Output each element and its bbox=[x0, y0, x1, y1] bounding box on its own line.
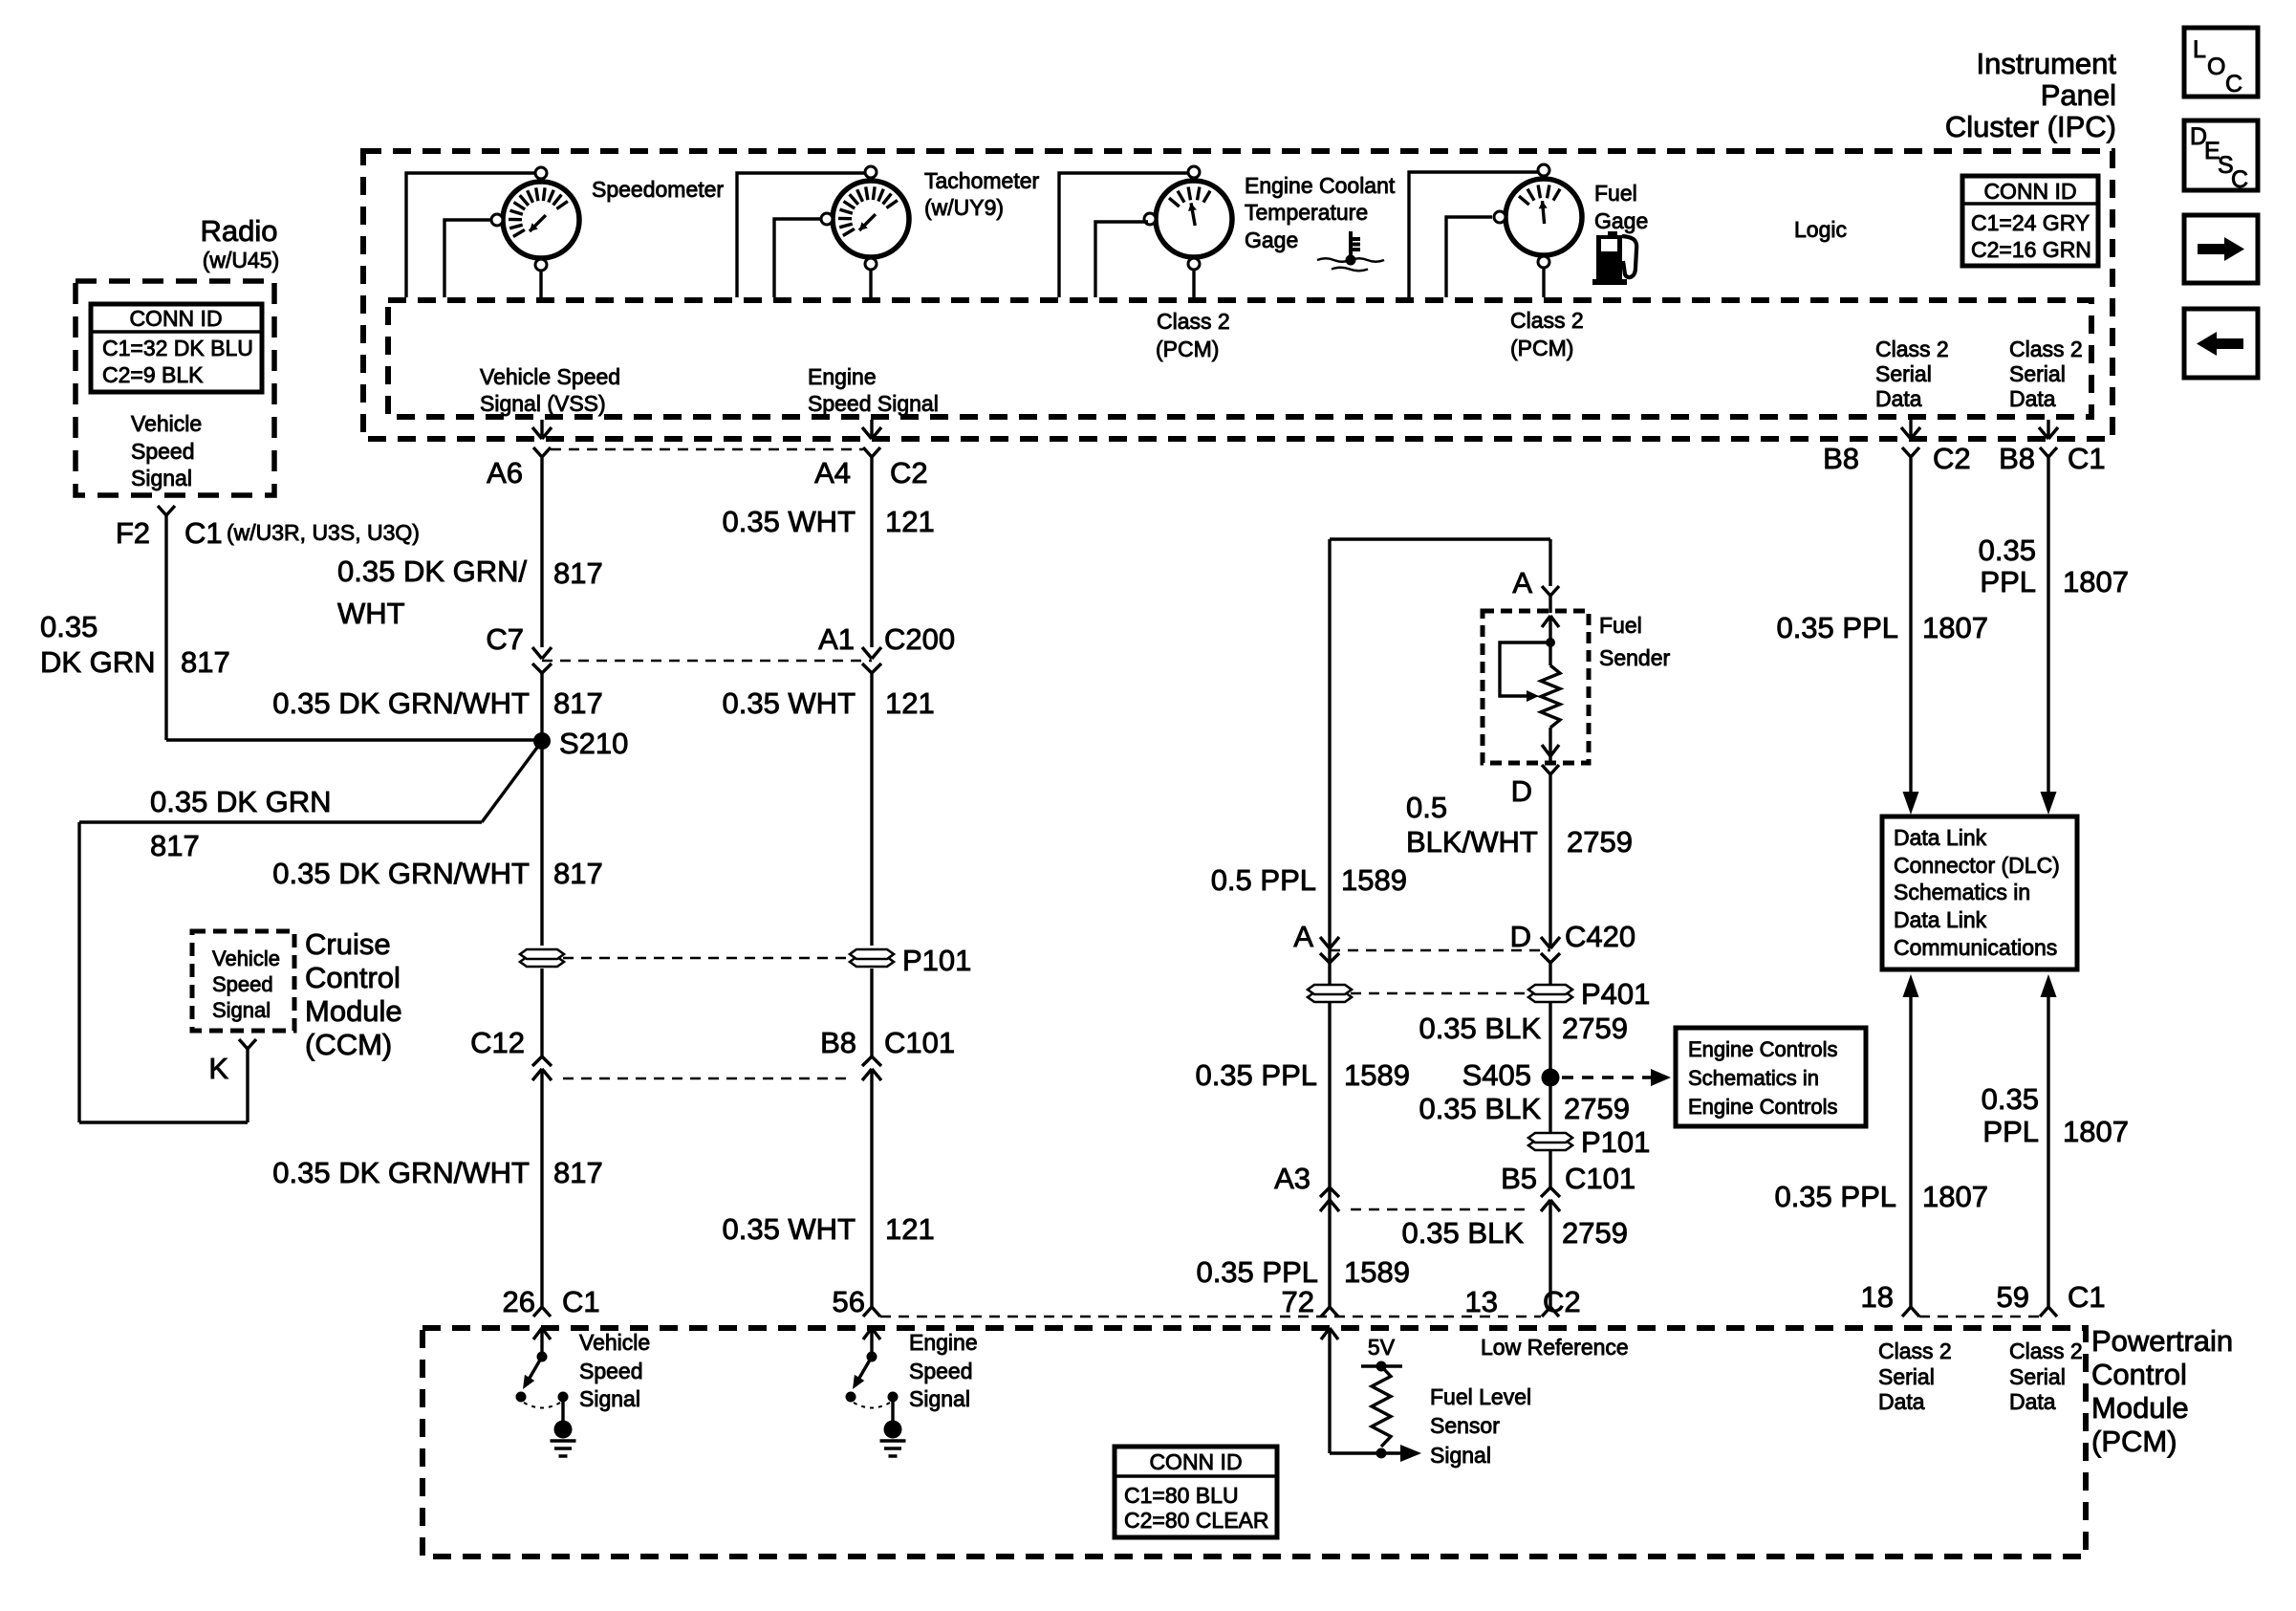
svg-text:0.35 WHT: 0.35 WHT bbox=[722, 1212, 856, 1246]
svg-text:1589: 1589 bbox=[1341, 863, 1407, 897]
svg-text:Signal: Signal bbox=[909, 1386, 970, 1411]
svg-text:C2=80 CLEAR: C2=80 CLEAR bbox=[1124, 1508, 1269, 1533]
svg-text:2759: 2759 bbox=[1564, 1092, 1630, 1125]
svg-text:C2=16 GRN: C2=16 GRN bbox=[1971, 237, 2091, 262]
svg-text:Engine: Engine bbox=[909, 1330, 978, 1355]
svg-text:Class 2: Class 2 bbox=[2009, 337, 2083, 361]
svg-text:0.35 BLK: 0.35 BLK bbox=[1401, 1216, 1524, 1250]
svg-text:(PCM): (PCM) bbox=[1510, 336, 1573, 360]
svg-text:Data: Data bbox=[1875, 386, 1922, 411]
svg-text:Connector (DLC): Connector (DLC) bbox=[1894, 853, 2060, 878]
svg-text:B8: B8 bbox=[1999, 442, 2035, 475]
svg-text:C2=9 BLK: C2=9 BLK bbox=[102, 362, 204, 387]
svg-text:Class 2: Class 2 bbox=[1157, 309, 1230, 334]
svg-text:C2: C2 bbox=[1543, 1285, 1581, 1318]
svg-text:A1: A1 bbox=[818, 622, 855, 656]
svg-text:Class 2: Class 2 bbox=[1510, 308, 1584, 333]
svg-text:0.35: 0.35 bbox=[1982, 1082, 2039, 1116]
svg-text:Engine Coolant: Engine Coolant bbox=[1245, 173, 1396, 198]
svg-text:F2: F2 bbox=[116, 516, 150, 550]
svg-text:Data Link: Data Link bbox=[1894, 825, 1987, 850]
svg-text:Gage: Gage bbox=[1245, 228, 1298, 252]
svg-text:Engine Controls: Engine Controls bbox=[1688, 1037, 1838, 1061]
svg-text:Class 2: Class 2 bbox=[1875, 337, 1949, 361]
svg-text:(w/U3R, U3S, U3Q): (w/U3R, U3S, U3Q) bbox=[227, 520, 420, 545]
svg-text:Fuel: Fuel bbox=[1599, 613, 1642, 638]
svg-text:Signal: Signal bbox=[579, 1386, 640, 1411]
svg-text:0.35 PPL: 0.35 PPL bbox=[1776, 611, 1898, 644]
svg-text:O: O bbox=[2207, 54, 2225, 80]
svg-text:C12: C12 bbox=[470, 1026, 525, 1059]
svg-text:0.35: 0.35 bbox=[40, 610, 97, 643]
svg-text:C2: C2 bbox=[1933, 442, 1971, 475]
svg-text:0.35 WHT: 0.35 WHT bbox=[722, 505, 856, 538]
svg-text:121: 121 bbox=[885, 686, 935, 720]
svg-text:121: 121 bbox=[885, 505, 935, 538]
svg-text:Schematics in: Schematics in bbox=[1894, 880, 2030, 904]
svg-text:0.35 DK GRN/WHT: 0.35 DK GRN/WHT bbox=[272, 686, 530, 720]
svg-text:0.35 PPL: 0.35 PPL bbox=[1774, 1180, 1896, 1213]
svg-text:Speed: Speed bbox=[212, 972, 273, 996]
svg-text:A4: A4 bbox=[814, 456, 851, 490]
svg-text:Vehicle: Vehicle bbox=[579, 1330, 650, 1355]
svg-text:C1=24 GRY: C1=24 GRY bbox=[1971, 210, 2090, 235]
svg-text:Module: Module bbox=[2091, 1391, 2189, 1425]
svg-text:C101: C101 bbox=[884, 1026, 955, 1059]
svg-text:1589: 1589 bbox=[1344, 1058, 1410, 1092]
svg-text:Data: Data bbox=[2009, 386, 2056, 411]
svg-text:0.5: 0.5 bbox=[1406, 791, 1447, 824]
svg-text:817: 817 bbox=[553, 1156, 603, 1189]
svg-text:D: D bbox=[1511, 774, 1532, 808]
svg-text:817: 817 bbox=[553, 857, 603, 890]
svg-text:2759: 2759 bbox=[1562, 1012, 1628, 1045]
svg-text:Serial: Serial bbox=[2009, 361, 2066, 386]
svg-text:Sensor: Sensor bbox=[1430, 1413, 1500, 1438]
svg-text:Signal: Signal bbox=[131, 466, 192, 490]
svg-text:A: A bbox=[1512, 566, 1532, 599]
svg-text:817: 817 bbox=[553, 556, 603, 590]
svg-text:C1=80 BLU: C1=80 BLU bbox=[1124, 1483, 1239, 1508]
svg-text:Class 2: Class 2 bbox=[1878, 1339, 1952, 1363]
svg-text:Speedometer: Speedometer bbox=[592, 177, 724, 202]
svg-text:C1: C1 bbox=[562, 1285, 600, 1318]
svg-text:Cluster (IPC): Cluster (IPC) bbox=[1945, 110, 2116, 143]
svg-text:0.35 DK GRN/WHT: 0.35 DK GRN/WHT bbox=[272, 857, 530, 890]
svg-text:817: 817 bbox=[553, 686, 603, 720]
svg-text:CONN ID: CONN ID bbox=[1149, 1449, 1242, 1474]
svg-text:S210: S210 bbox=[559, 727, 628, 760]
svg-text:817: 817 bbox=[181, 645, 230, 679]
svg-text:Tachometer: Tachometer bbox=[924, 168, 1040, 193]
svg-text:0.35 DK GRN: 0.35 DK GRN bbox=[150, 785, 332, 818]
svg-text:A6: A6 bbox=[487, 456, 523, 490]
svg-text:0.35 BLK: 0.35 BLK bbox=[1419, 1012, 1541, 1045]
svg-text:C: C bbox=[2225, 71, 2242, 98]
svg-text:0.35 PPL: 0.35 PPL bbox=[1196, 1255, 1318, 1289]
svg-text:(CCM): (CCM) bbox=[305, 1028, 392, 1061]
svg-text:B8: B8 bbox=[1823, 442, 1859, 475]
svg-text:C1: C1 bbox=[184, 516, 223, 550]
svg-text:1807: 1807 bbox=[2063, 565, 2129, 599]
svg-text:BLK/WHT: BLK/WHT bbox=[1406, 825, 1538, 859]
svg-text:Schematics in: Schematics in bbox=[1688, 1066, 1819, 1090]
svg-text:Serial: Serial bbox=[2009, 1364, 2066, 1389]
svg-text:Speed Signal: Speed Signal bbox=[808, 391, 939, 416]
svg-text:13: 13 bbox=[1465, 1285, 1498, 1318]
svg-text:Class 2: Class 2 bbox=[2009, 1339, 2083, 1363]
svg-text:5V: 5V bbox=[1368, 1335, 1396, 1360]
svg-text:P101: P101 bbox=[902, 944, 971, 977]
svg-text:C7: C7 bbox=[486, 622, 524, 656]
svg-text:Temperature: Temperature bbox=[1245, 200, 1368, 225]
svg-text:Data: Data bbox=[2009, 1389, 2056, 1414]
svg-text:Module: Module bbox=[305, 994, 402, 1028]
svg-text:CONN ID: CONN ID bbox=[1983, 179, 2076, 204]
svg-text:72: 72 bbox=[1282, 1285, 1314, 1318]
svg-text:1807: 1807 bbox=[1922, 1180, 1988, 1213]
svg-text:Vehicle: Vehicle bbox=[212, 947, 280, 970]
svg-text:D: D bbox=[1510, 920, 1531, 953]
svg-text:C2: C2 bbox=[890, 456, 928, 490]
svg-text:Data Link: Data Link bbox=[1894, 907, 1987, 932]
svg-text:Engine: Engine bbox=[808, 364, 877, 389]
svg-text:A3: A3 bbox=[1274, 1162, 1310, 1195]
svg-text:Control: Control bbox=[305, 961, 401, 994]
svg-text:Sender: Sender bbox=[1599, 645, 1671, 670]
svg-text:B8: B8 bbox=[820, 1026, 856, 1059]
svg-text:26: 26 bbox=[503, 1285, 535, 1318]
svg-text:Communications: Communications bbox=[1894, 935, 2057, 960]
svg-text:C1: C1 bbox=[2068, 1280, 2106, 1314]
svg-text:0.35 BLK: 0.35 BLK bbox=[1419, 1092, 1541, 1125]
svg-text:PPL: PPL bbox=[1980, 565, 2036, 599]
svg-text:Speed: Speed bbox=[579, 1359, 643, 1383]
svg-text:S405: S405 bbox=[1462, 1058, 1531, 1092]
svg-text:Control: Control bbox=[2091, 1358, 2187, 1391]
svg-text:Speed: Speed bbox=[131, 439, 195, 464]
svg-text:Powertrain: Powertrain bbox=[2091, 1324, 2233, 1358]
svg-text:0.5 PPL: 0.5 PPL bbox=[1211, 863, 1316, 897]
svg-text:Engine Controls: Engine Controls bbox=[1688, 1095, 1838, 1119]
svg-text:56: 56 bbox=[833, 1285, 865, 1318]
svg-text:(w/U45): (w/U45) bbox=[203, 248, 280, 272]
svg-text:0.35 WHT: 0.35 WHT bbox=[722, 686, 856, 720]
svg-text:L: L bbox=[2193, 36, 2206, 63]
svg-text:CONN ID: CONN ID bbox=[129, 306, 222, 331]
svg-text:0.35 DK GRN/WHT: 0.35 DK GRN/WHT bbox=[272, 1156, 530, 1189]
svg-text:Signal: Signal bbox=[1430, 1443, 1491, 1468]
svg-text:Speed: Speed bbox=[909, 1359, 973, 1383]
svg-text:Signal (VSS): Signal (VSS) bbox=[480, 391, 606, 416]
svg-text:PPL: PPL bbox=[1982, 1115, 2039, 1148]
svg-text:C420: C420 bbox=[1565, 920, 1635, 953]
svg-text:K: K bbox=[208, 1052, 228, 1085]
svg-text:2759: 2759 bbox=[1562, 1216, 1628, 1250]
svg-text:P101: P101 bbox=[1581, 1125, 1650, 1159]
svg-text:0.35 DK GRN/: 0.35 DK GRN/ bbox=[337, 555, 528, 588]
svg-text:Fuel: Fuel bbox=[1594, 181, 1637, 206]
svg-text:Serial: Serial bbox=[1875, 361, 1932, 386]
svg-text:A: A bbox=[1293, 920, 1313, 953]
svg-text:0.35: 0.35 bbox=[1979, 533, 2036, 567]
svg-text:DK GRN: DK GRN bbox=[40, 645, 156, 679]
svg-text:Logic: Logic bbox=[1794, 217, 1847, 242]
svg-text:Data: Data bbox=[1878, 1389, 1925, 1414]
svg-text:Fuel Level: Fuel Level bbox=[1430, 1384, 1531, 1409]
svg-text:(PCM): (PCM) bbox=[2091, 1425, 2177, 1458]
svg-text:C1: C1 bbox=[2068, 442, 2106, 475]
svg-text:B5: B5 bbox=[1501, 1162, 1537, 1195]
svg-text:Cruise: Cruise bbox=[305, 927, 391, 961]
svg-text:(w/UY9): (w/UY9) bbox=[924, 195, 1004, 220]
svg-text:WHT: WHT bbox=[337, 597, 405, 630]
svg-text:Vehicle Speed: Vehicle Speed bbox=[480, 364, 620, 389]
svg-text:1589: 1589 bbox=[1344, 1255, 1410, 1289]
svg-text:Low Reference: Low Reference bbox=[1481, 1335, 1629, 1360]
svg-text:Vehicle: Vehicle bbox=[131, 411, 202, 436]
svg-text:C1=32 DK BLU: C1=32 DK BLU bbox=[102, 336, 253, 360]
svg-text:1807: 1807 bbox=[2063, 1115, 2129, 1148]
svg-text:Serial: Serial bbox=[1878, 1364, 1935, 1389]
svg-text:2759: 2759 bbox=[1567, 825, 1633, 859]
svg-text:(PCM): (PCM) bbox=[1156, 337, 1219, 361]
svg-text:18: 18 bbox=[1861, 1280, 1894, 1314]
svg-text:C: C bbox=[2231, 166, 2248, 193]
svg-text:P401: P401 bbox=[1581, 977, 1650, 1011]
svg-text:121: 121 bbox=[885, 1212, 935, 1246]
svg-text:1807: 1807 bbox=[1922, 611, 1988, 644]
svg-text:C101: C101 bbox=[1565, 1162, 1635, 1195]
svg-text:0.35 PPL: 0.35 PPL bbox=[1195, 1058, 1317, 1092]
svg-text:C200: C200 bbox=[884, 622, 955, 656]
svg-text:Radio: Radio bbox=[201, 214, 278, 248]
svg-text:59: 59 bbox=[1997, 1280, 2029, 1314]
svg-text:817: 817 bbox=[150, 829, 200, 862]
svg-text:Gage: Gage bbox=[1594, 208, 1648, 233]
svg-text:Panel: Panel bbox=[2041, 78, 2116, 112]
svg-text:Instrument: Instrument bbox=[1977, 47, 2117, 80]
svg-text:Signal: Signal bbox=[212, 998, 271, 1022]
